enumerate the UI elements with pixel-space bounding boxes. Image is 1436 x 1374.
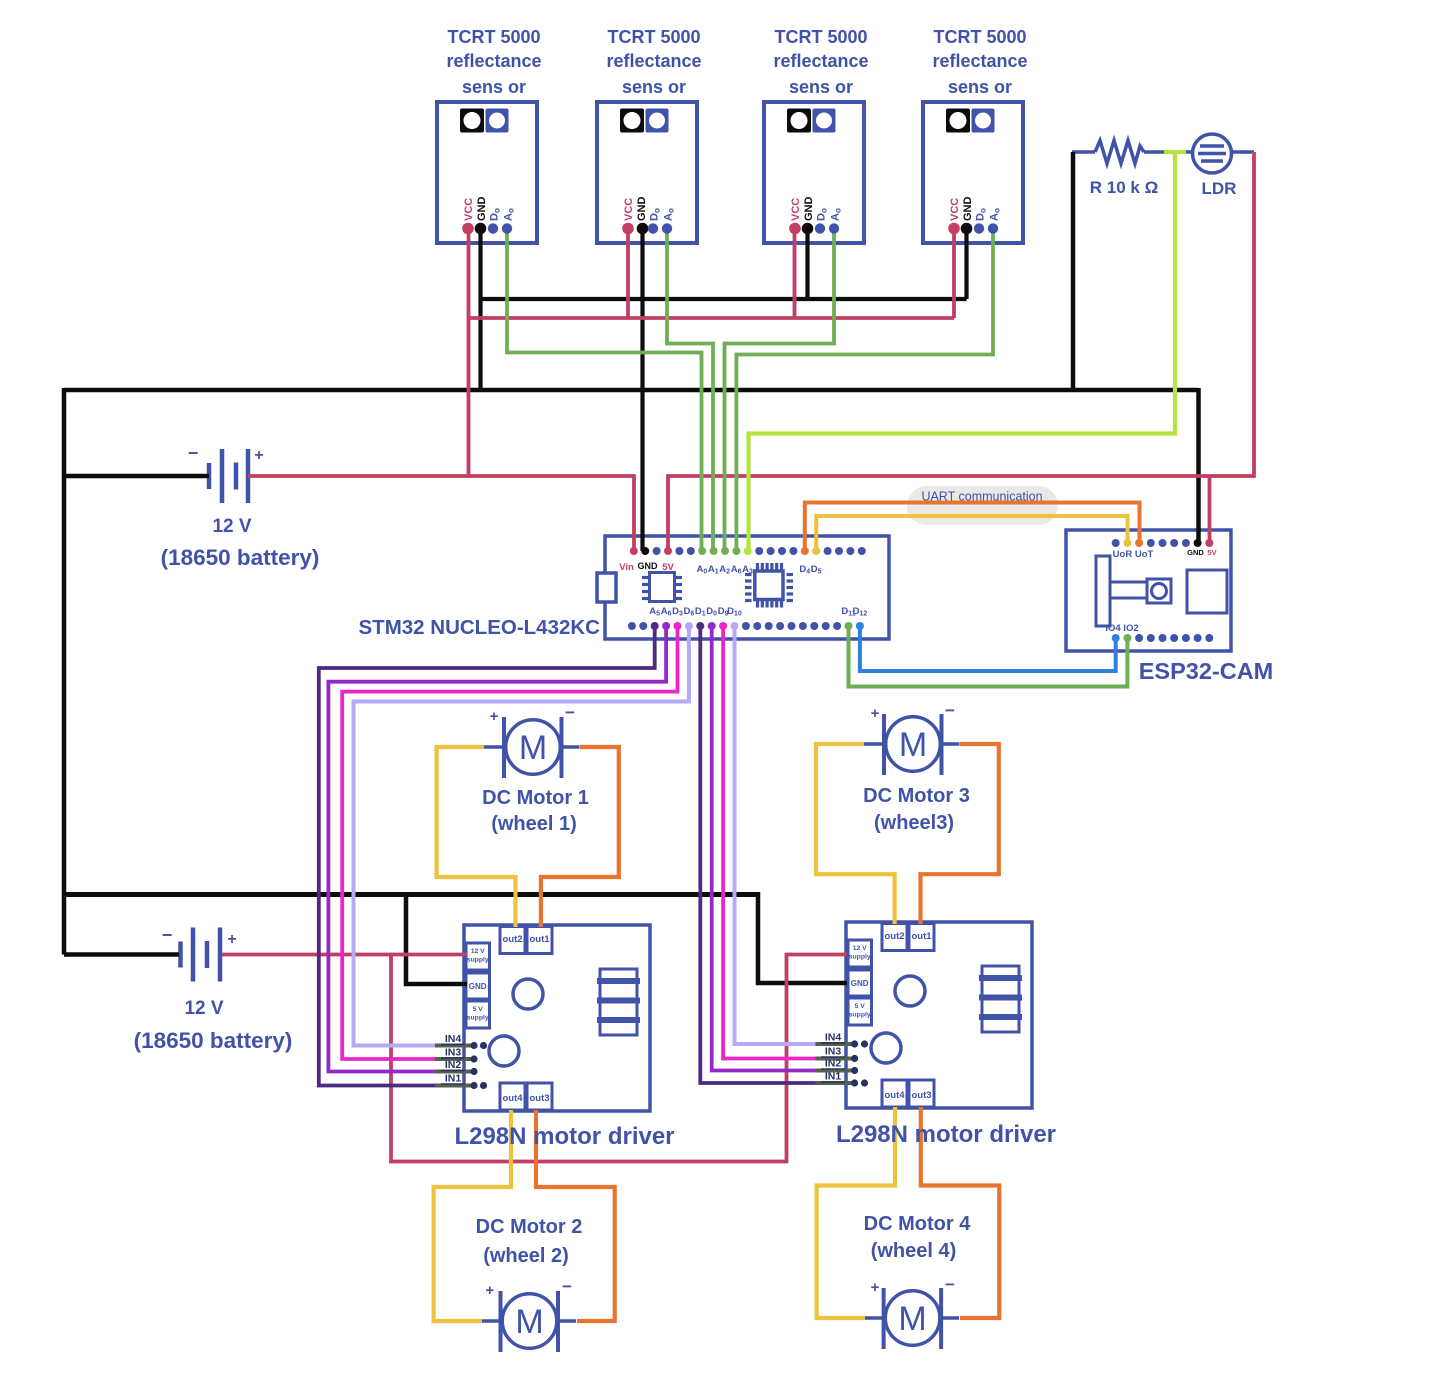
svg-text:out2: out2 [884,931,904,942]
svg-text:IN4: IN4 [825,1032,842,1044]
svg-text:Vin: Vin [619,562,634,573]
svg-text:(wheel 2): (wheel 2) [483,1245,569,1267]
svg-text:R 10 k Ω: R 10 k Ω [1090,178,1158,197]
svg-text:−: − [565,703,575,722]
svg-text:out4: out4 [884,1090,905,1101]
svg-text:reflectance: reflectance [606,51,701,71]
svg-text:TCRT 5000: TCRT 5000 [607,27,700,47]
svg-text:ESP32-CAM: ESP32-CAM [1139,658,1274,684]
svg-text:DC Motor 4: DC Motor 4 [864,1213,972,1235]
svg-text:out3: out3 [911,1090,931,1101]
svg-text:M: M [899,726,927,764]
svg-text:+: + [871,1279,880,1296]
svg-text:VCC: VCC [623,198,635,221]
svg-text:−: − [562,1277,572,1296]
svg-text:12 V: 12 V [184,998,223,1019]
svg-text:GND: GND [476,197,488,222]
svg-text:5V: 5V [1207,548,1216,557]
svg-text:IN3: IN3 [445,1047,462,1059]
svg-text:5 V: 5 V [855,1003,866,1010]
svg-text:LDR: LDR [1202,179,1237,198]
svg-text:12 V: 12 V [853,945,867,952]
svg-text:DC Motor 1: DC Motor 1 [482,787,589,809]
svg-text:TCRT 5000: TCRT 5000 [933,27,1026,47]
svg-text:+: + [254,447,263,464]
svg-text:GND: GND [803,197,815,222]
svg-text:GND: GND [1187,548,1204,557]
svg-text:sens or: sens or [948,77,1012,97]
svg-text:reflectance: reflectance [932,51,1027,71]
svg-text:(wheel3): (wheel3) [874,812,954,834]
svg-text:+: + [485,1282,494,1299]
svg-text:supply: supply [467,1015,489,1022]
svg-text:(18650 battery): (18650 battery) [161,545,320,570]
svg-text:VCC: VCC [949,198,961,221]
svg-text:GND: GND [638,561,659,571]
svg-text:TCRT 5000: TCRT 5000 [774,27,867,47]
svg-text:−: − [945,701,955,720]
svg-text:out3: out3 [529,1093,549,1104]
svg-text:VCC: VCC [790,198,802,221]
svg-text:IN2: IN2 [445,1059,462,1071]
svg-text:UoR UoT: UoR UoT [1113,549,1154,560]
svg-text:out1: out1 [529,934,550,945]
svg-text:−: − [945,1275,955,1294]
svg-text:out4: out4 [502,1093,523,1104]
svg-text:reflectance: reflectance [446,51,541,71]
svg-text:sens or: sens or [789,77,853,97]
svg-text:UART communication: UART communication [921,490,1042,504]
svg-text:(18650 battery): (18650 battery) [134,1028,293,1053]
svg-text:(wheel 4): (wheel 4) [871,1240,957,1262]
svg-text:+: + [871,705,880,722]
svg-text:IN2: IN2 [825,1058,842,1070]
svg-text:STM32 NUCLEO-L432KC: STM32 NUCLEO-L432KC [359,616,601,639]
svg-text:+: + [227,931,236,948]
svg-text:L298N motor driver: L298N motor driver [836,1121,1056,1148]
svg-text:L298N motor driver: L298N motor driver [454,1123,674,1150]
svg-text:(wheel 1): (wheel 1) [491,813,577,835]
svg-text:12 V: 12 V [471,948,485,955]
svg-text:−: − [188,443,199,463]
svg-text:reflectance: reflectance [773,51,868,71]
svg-text:M: M [898,1300,926,1338]
svg-text:DC Motor 3: DC Motor 3 [863,785,970,807]
svg-text:−: − [162,925,173,945]
svg-text:GND: GND [636,197,648,222]
svg-text:IN1: IN1 [825,1071,842,1083]
svg-text:5 V: 5 V [473,1006,484,1013]
svg-text:12 V: 12 V [212,516,251,537]
svg-text:M: M [515,1303,543,1341]
svg-text:GND: GND [469,982,487,991]
svg-text:DC Motor 2: DC Motor 2 [476,1216,583,1238]
svg-text:supply: supply [849,1012,871,1019]
svg-text:sens or: sens or [462,77,526,97]
svg-text:VCC: VCC [463,198,475,221]
svg-text:IO4 IO2: IO4 IO2 [1105,623,1138,634]
svg-text:out2: out2 [502,934,522,945]
svg-text:supply: supply [467,957,489,964]
svg-text:IN4: IN4 [445,1033,462,1045]
svg-text:IN1: IN1 [445,1073,462,1085]
svg-text:supply: supply [849,954,871,961]
svg-text:GND: GND [962,197,974,222]
svg-text:TCRT 5000: TCRT 5000 [447,27,540,47]
svg-text:5V: 5V [662,562,674,573]
svg-text:out1: out1 [911,931,932,942]
svg-text:GND: GND [851,979,869,988]
svg-text:IN3: IN3 [825,1046,842,1058]
svg-text:sens or: sens or [622,77,686,97]
svg-text:+: + [490,708,499,725]
svg-text:M: M [519,729,547,767]
